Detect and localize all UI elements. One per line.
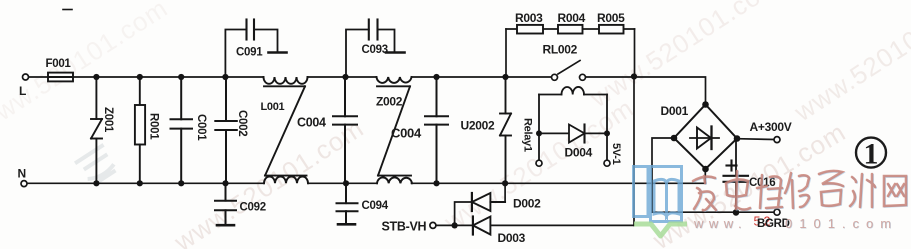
node R001 top [137,74,143,80]
node bridge bottom vertex [702,166,709,173]
terminal Relay1 [536,160,542,166]
svg-text:RL002: RL002 [543,43,578,57]
terminal L [23,74,29,80]
watermark gray tile bottom-left [168,112,369,249]
watermark gray hanzi scribble left [75,145,119,187]
wire resistor chain left riser [505,29,507,77]
capacitor C001 [171,77,193,183]
node D004 right [604,130,610,136]
svg-text:www.: www. [693,216,747,231]
wire top rail after Z002 [412,76,552,78]
svg-text:C091: C091 [236,47,263,59]
watermark gray tile mid-right [438,92,639,237]
node relay right / D003 [631,73,637,79]
diode D003 [455,217,491,235]
watermark blue book icon [634,167,682,222]
wire D002 to bottom rail [504,183,506,202]
svg-text:C001: C001 [195,114,207,141]
capacitor C004 (second) [425,77,448,183]
wire resistor chain right riser [634,29,636,77]
node C001 top [178,74,184,80]
capacitor C094 [337,183,358,223]
resistor R005 [599,25,624,34]
svg-text:A+300V: A+300V [750,120,792,134]
bridge rectifier D001 [674,105,737,170]
wire top rail after relay contact [586,77,706,105]
svg-text:Z002: Z002 [376,95,403,109]
watermark gray tile right [647,117,851,249]
terminal STB-VH [430,222,436,228]
relay coil RL002 [539,87,607,160]
node C004b top [433,74,439,80]
node Z001 bottom [93,180,99,186]
diode D004 [539,125,607,143]
svg-text:U2002: U2002 [461,119,495,133]
node C004/C093 top [342,74,348,80]
svg-text:F001: F001 [46,58,72,70]
node bridge top vertex [702,101,709,108]
node C004b bottom [433,180,439,186]
wire STB-VH to node [436,224,455,226]
wire bridge bottom vertex to N rail [704,169,706,183]
svg-text:R001: R001 [148,113,160,140]
svg-text:D002: D002 [513,197,541,211]
svg-text:Relay1: Relay1 [522,118,534,152]
wire D003 output run [490,224,634,226]
svg-text:L: L [19,84,26,98]
inductor L001 common-mode choke [264,77,309,183]
inductor Z002 common-mode choke [377,77,413,183]
capacitor C004 (first) [333,77,357,183]
node Z001 top [93,74,99,80]
capacitor C016 [724,139,749,212]
svg-text:C093: C093 [362,44,388,56]
page number circled 1 [856,138,886,171]
svg-text:STB-VH: STB-VH [382,220,427,234]
svg-text:C094: C094 [362,200,389,212]
watermark gray tile top-middle [584,0,785,114]
node D004 left [536,130,542,136]
svg-text:C004: C004 [391,126,422,141]
watermark green brace [634,224,687,236]
capacitor C002 [215,77,237,183]
resistor R001 [135,77,145,183]
svg-text:R003: R003 [515,11,543,25]
diode D002 [472,193,505,211]
svg-text:0101.com: 0101.com [785,216,898,231]
node bridge left vertex [671,135,678,142]
node STB branch [452,222,458,228]
node C002/C092 bottom [222,180,228,186]
wire top rail middle [308,76,377,78]
node C002/C091 top [222,74,228,80]
node R001 bottom [137,180,143,186]
node C016 bottom [733,209,740,216]
node C001 bottom [178,180,184,186]
wire D003 riser to top rail node [633,77,635,226]
node U2002/D002 bottom [502,180,508,186]
svg-text:N: N [18,167,26,181]
svg-text:D003: D003 [498,231,526,245]
scan speck [63,9,72,11]
svg-text:D001: D001 [661,104,689,118]
capacitor C092 [215,183,236,224]
svg-text:Z001: Z001 [102,107,114,133]
svg-text:5V-1: 5V-1 [610,143,622,165]
svg-text:C092: C092 [240,202,266,214]
ground C094 [338,223,355,226]
watermark gray tile top-left [0,0,173,138]
svg-text:C002: C002 [236,110,248,136]
wire bridge right to A+300V [737,138,774,141]
svg-text:D004: D004 [565,146,593,160]
resistor R004 [558,25,583,34]
ground C092 [217,224,234,227]
node U2002 top [502,74,508,80]
wire resistor chain top [506,28,635,30]
terminal A+300V [774,137,780,143]
terminal N [21,181,27,187]
terminal 5V-1 [604,160,610,166]
node bridge right vertex [734,135,741,142]
node C004/C094 bottom [343,180,349,186]
watermark gray tile top-right [788,0,911,128]
wire bridge left to BGRD run [652,138,774,212]
ground C093 [386,51,405,54]
varistor Z001 [91,77,102,183]
fuse F001 [48,73,73,82]
svg-text:R005: R005 [597,11,625,25]
wire bottom rail right [412,182,706,184]
wire top rail L [29,76,264,78]
capacitor C091 [225,20,277,78]
terminal BGRD [774,209,780,215]
relay contact RL002 [552,61,586,81]
svg-text:R004: R004 [558,11,586,25]
wire bottom rail N [27,182,264,184]
svg-text:1: 1 [864,138,879,171]
ground C091 [269,51,287,54]
varistor U2002 [500,77,511,183]
wire node to D002 [455,202,472,225]
wire bottom rail middle [308,182,377,184]
capacitor C093 [346,20,395,78]
svg-text:C004: C004 [297,116,326,130]
svg-text:L001: L001 [261,101,285,113]
resistor R003 [517,25,543,34]
